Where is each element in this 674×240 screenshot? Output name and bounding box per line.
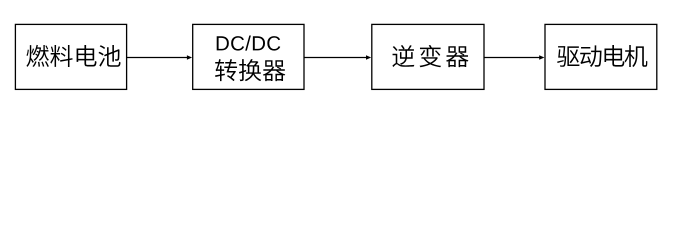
wire/arrow W1: fuel cell to DC/DC converter	[127, 55, 193, 60]
label T1: 燃料电池 (fuel cell)	[26, 45, 120, 67]
label T5: 驱动电机 (drive motor)	[557, 45, 647, 67]
label T2: DC/DC	[217, 36, 281, 51]
label T4: 逆变器 (inverter)	[392, 45, 468, 67]
label T3: 转换器 (converter)	[215, 59, 285, 81]
block B2: DC/DC converter DC/DC转换器	[193, 24, 304, 89]
block B4: drive motor 驱动电机	[545, 24, 657, 89]
wire/arrow W2: DC/DC converter to inverter	[304, 55, 371, 60]
block B3: inverter 逆变器	[372, 24, 484, 89]
wire/arrow W3: inverter to drive motor	[484, 55, 544, 60]
block B1: fuel cell 燃料电池	[15, 24, 126, 89]
